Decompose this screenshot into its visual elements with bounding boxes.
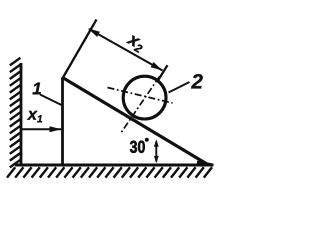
- svg-text:30: 30: [130, 138, 146, 157]
- svg-text:2: 2: [190, 70, 203, 93]
- svg-text:1: 1: [32, 79, 41, 98]
